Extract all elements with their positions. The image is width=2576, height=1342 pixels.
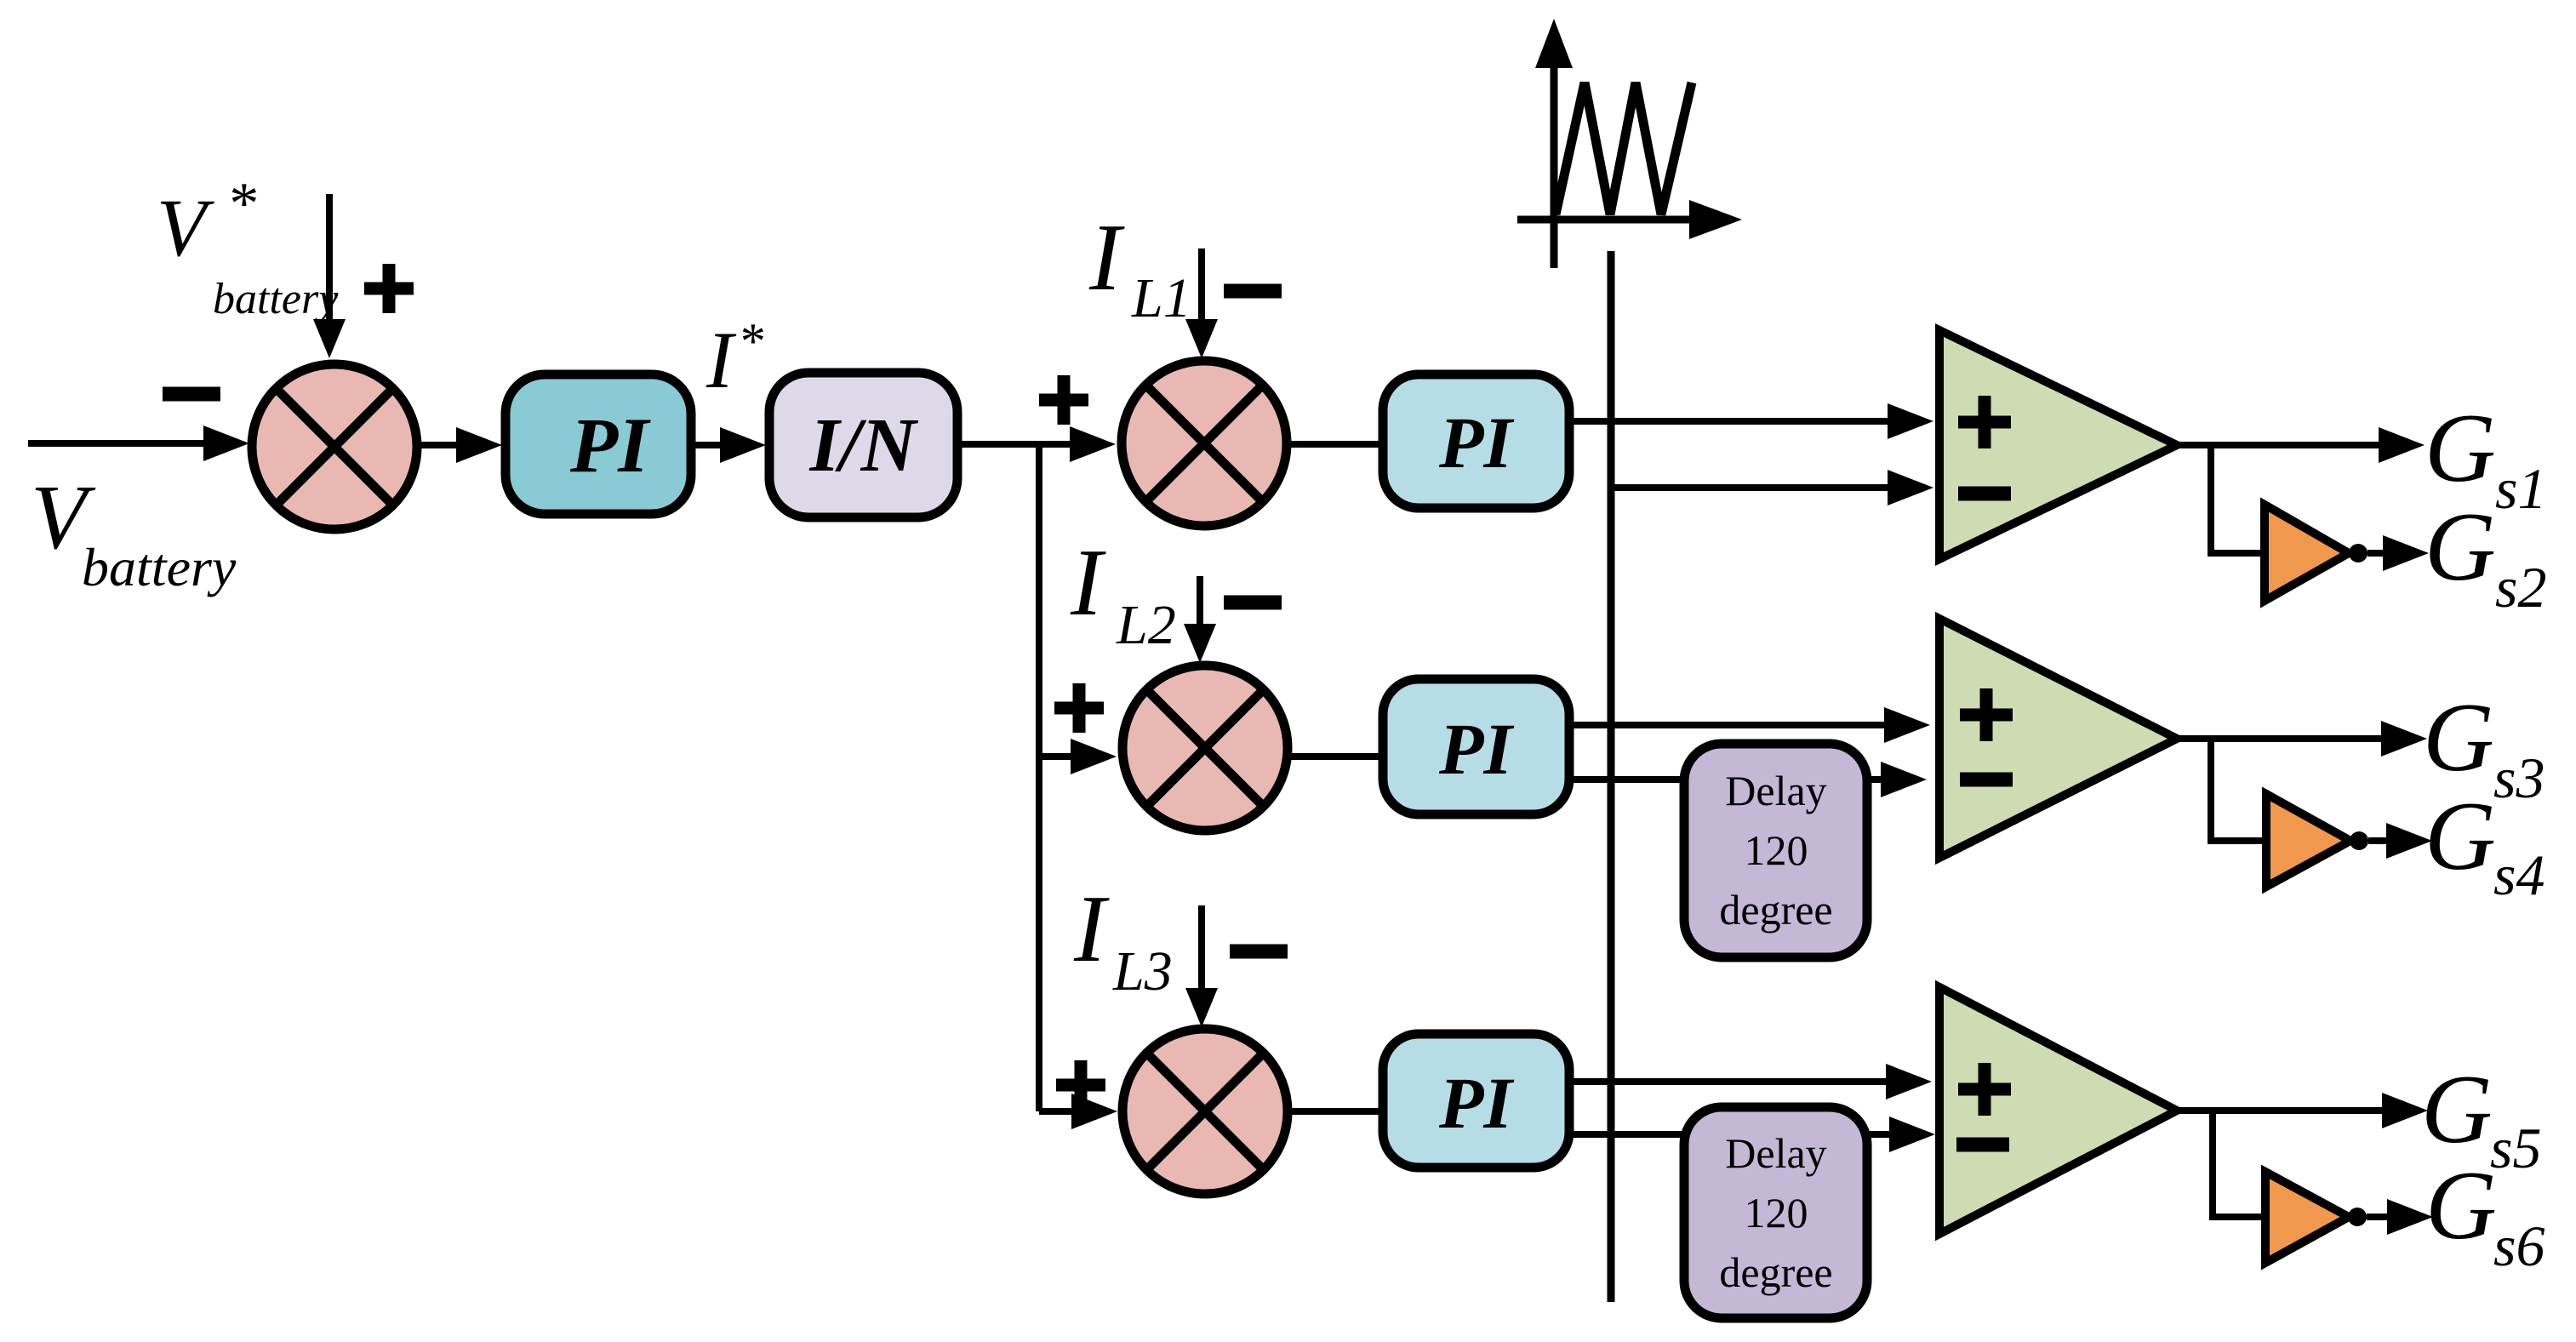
svg-text:*: * <box>738 313 763 369</box>
delay block D1 <box>1684 744 1867 957</box>
inverting dot N1 <box>2349 544 2368 562</box>
svg-text:I: I <box>1088 205 1125 311</box>
svg-text:V: V <box>157 182 214 273</box>
minus sign at S1 left input <box>163 387 220 402</box>
wire V*battery down-arrow into summing junction S1 <box>326 194 333 324</box>
comparator U2 <box>1939 619 2177 858</box>
wire branch U1 output down to inverter N1 <box>2211 445 2265 553</box>
node Gs6 label <box>2425 1151 2545 1278</box>
svg-text:s1: s1 <box>2495 456 2546 521</box>
svg-text:battery: battery <box>82 537 237 597</box>
node I* label <box>705 313 763 405</box>
inverter N2 <box>2266 794 2350 887</box>
node Gs4 label <box>2425 782 2545 907</box>
summing junction S3 <box>1122 665 1288 831</box>
wire branch to summing junction S3 <box>1039 753 1076 760</box>
node Vbattery-ref label V*_battery <box>157 171 339 323</box>
carrier sawtooth waveform <box>1556 83 1692 214</box>
svg-text:battery: battery <box>213 275 339 323</box>
plus sign at S3 left input <box>1054 683 1104 733</box>
carrier waveform horizontal axis <box>1517 216 1694 224</box>
wire S3 to PI3 <box>1291 753 1383 760</box>
wire IL2 down-arrow into S3 <box>1197 576 1203 629</box>
svg-text:G: G <box>2425 1151 2497 1260</box>
svg-text:PI: PI <box>1438 402 1515 483</box>
minus sign inside U1 <box>1958 487 2011 501</box>
wire branch to summing junction S4 <box>1039 1108 1077 1115</box>
summing junction S4 <box>1122 1029 1288 1194</box>
svg-text:PI: PI <box>1438 708 1515 790</box>
summing junction S1 <box>252 364 417 529</box>
wire U2 output to Gs3 <box>2177 735 2386 742</box>
wire branch U3 output down to inverter N3 <box>2213 1111 2265 1217</box>
plus sign inside U3 <box>1958 1063 2011 1116</box>
wire U1 output to Gs1 <box>2177 442 2384 448</box>
wire I/N output bus to summing junction S2 <box>957 441 1075 448</box>
wire branch U2 output down to inverter N2 <box>2211 739 2266 841</box>
wire PI3 output to delay D1 and comparator U2 minus input <box>1569 776 1886 783</box>
wire S2 to PI2 <box>1286 441 1383 448</box>
wire bus branch vertical <box>1036 444 1042 1111</box>
svg-text:*: * <box>226 171 256 237</box>
inverter N1 <box>2265 505 2349 601</box>
svg-text:I: I <box>705 315 737 405</box>
wire PI4 output to delay D2 and comparator U3 minus input <box>1567 1131 1894 1138</box>
node Gs1 label <box>2425 394 2546 521</box>
wire U3 output to Gs5 <box>2177 1107 2387 1114</box>
controller PI2 <box>1383 374 1569 508</box>
minus sign at S2 top input <box>1224 284 1282 299</box>
plus sign at S4 left input <box>1056 1060 1105 1110</box>
wire Vbattery into summing junction S1 <box>28 440 208 447</box>
minus sign at S3 top input <box>1224 596 1282 610</box>
controller PI3 <box>1383 679 1569 814</box>
svg-text:Delay: Delay <box>1725 767 1826 814</box>
svg-text:degree: degree <box>1719 1248 1832 1296</box>
svg-text:G: G <box>2425 394 2496 503</box>
wire N3 to Gs6 <box>2367 1214 2392 1220</box>
svg-text:G: G <box>2425 782 2496 891</box>
svg-text:120: 120 <box>1745 1189 1808 1236</box>
comparator U1 <box>1939 330 2177 559</box>
plus sign inside U2 <box>1960 688 2013 741</box>
carrier waveform vertical axis <box>1551 63 1558 268</box>
plus sign at S2 left input <box>1039 375 1088 425</box>
svg-text:Delay: Delay <box>1725 1129 1826 1177</box>
comparator U3 <box>1939 987 2177 1234</box>
svg-text:L1: L1 <box>1131 267 1191 329</box>
svg-text:L3: L3 <box>1112 940 1173 1002</box>
summing junction S2 <box>1122 361 1287 526</box>
svg-text:120: 120 <box>1745 826 1808 874</box>
wire N2 to Gs4 <box>2368 837 2391 844</box>
minus sign inside U3 <box>1956 1138 2009 1152</box>
node IL3 label <box>1073 877 1173 1002</box>
node Gs3 label <box>2423 683 2545 810</box>
wire IL3 down-arrow into S4 <box>1198 905 1205 993</box>
wire PI1 to I/N <box>691 442 725 448</box>
plus sign inside U1 <box>1958 396 2011 448</box>
wire PI2 output to comparator U1 plus input <box>1569 418 1893 425</box>
controller PI4 <box>1383 1034 1569 1168</box>
wire carrier distribution line <box>1608 251 1615 1302</box>
node Gs2 label <box>2425 493 2546 620</box>
svg-text:s5: s5 <box>2490 1116 2541 1180</box>
svg-text:s2: s2 <box>2495 555 2546 620</box>
svg-text:degree: degree <box>1719 886 1832 934</box>
svg-text:PI: PI <box>569 402 651 488</box>
wire PI4 output to comparator U3 plus input <box>1569 1078 1891 1085</box>
inverter N3 <box>2265 1172 2349 1263</box>
svg-text:I: I <box>1073 877 1110 982</box>
svg-text:I/N: I/N <box>808 403 918 488</box>
wire carrier to comparator U1 minus input <box>1611 484 1893 491</box>
inverting dot N3 <box>2348 1208 2367 1226</box>
delay block D2 <box>1684 1107 1867 1318</box>
controller PI1 <box>505 374 691 514</box>
svg-text:s3: s3 <box>2493 745 2545 810</box>
svg-text:I: I <box>1070 530 1106 636</box>
svg-text:L2: L2 <box>1116 594 1176 656</box>
wire S4 to PI4 <box>1291 1108 1383 1115</box>
wire PI3 output to comparator U2 plus input <box>1569 722 1889 728</box>
svg-text:G: G <box>2425 493 2496 602</box>
svg-text:G: G <box>2421 1055 2493 1164</box>
node IL2 label <box>1070 530 1176 656</box>
svg-text:s6: s6 <box>2493 1214 2545 1278</box>
wire S1 output to PI1 <box>416 442 461 448</box>
minus sign inside U2 <box>1960 773 2013 787</box>
svg-text:PI: PI <box>1438 1062 1515 1144</box>
svg-text:s4: s4 <box>2493 842 2545 907</box>
node Vbattery label <box>31 467 237 597</box>
wire IL1 down-arrow into S2 <box>1198 248 1205 324</box>
inverting dot N2 <box>2350 831 2368 850</box>
node Gs5 label <box>2421 1055 2541 1180</box>
plus sign at S1 top input <box>364 264 414 313</box>
minus sign at S4 top input <box>1230 945 1288 959</box>
node IL1 label <box>1088 205 1191 329</box>
svg-text:G: G <box>2423 683 2494 792</box>
wire N1 to Gs2 <box>2368 550 2388 557</box>
block I/N current divider <box>769 373 957 517</box>
